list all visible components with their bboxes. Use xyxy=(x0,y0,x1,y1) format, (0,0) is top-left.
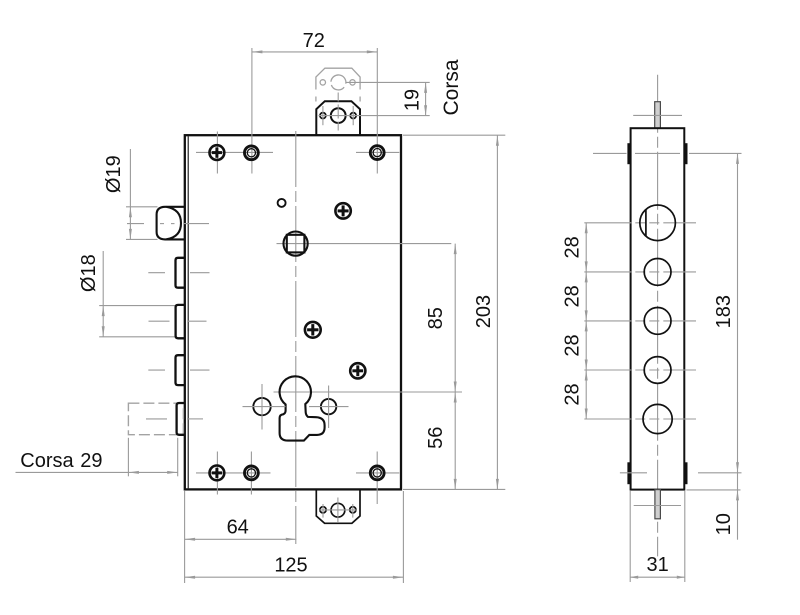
phantom bracket left small hole xyxy=(320,80,325,85)
svg-text:72: 72 xyxy=(303,30,325,52)
spindle crosshair / 85-dim extension xyxy=(277,243,452,245)
svg-text:183: 183 xyxy=(713,295,735,328)
svg-text:28: 28 xyxy=(561,236,583,258)
dimension 31 line xyxy=(630,576,685,578)
bolt stub 3 (retracted) xyxy=(176,355,185,385)
top bracket horizontal centreline / 19-dim extension xyxy=(319,115,430,117)
latch edge line in top hole xyxy=(645,209,647,236)
svg-text:29: 29 xyxy=(80,450,102,472)
top bracket centre hole xyxy=(331,108,346,123)
dimension 85/56 line xyxy=(454,244,456,490)
screw crosshairs top row xyxy=(196,151,273,153)
latch bevel curve xyxy=(167,207,182,239)
euro cylinder keyhole xyxy=(280,376,325,440)
keyhole left fixing hole xyxy=(253,398,270,415)
bolt 3 centreline xyxy=(148,369,165,371)
keyhole hole crosshairs xyxy=(243,406,286,408)
phantom bracket centre hole (broken circle) xyxy=(331,75,346,84)
dimension 10 line xyxy=(737,473,739,540)
dimension 31 extension lines xyxy=(629,491,631,582)
dimension 19 line xyxy=(425,82,427,115)
body bottom edge extension (203/56) xyxy=(403,488,505,490)
phantom bracket right small hole xyxy=(350,80,355,85)
bottom bracket right small hole xyxy=(350,507,356,513)
svg-text:56: 56 xyxy=(425,427,447,449)
dimension Corsa 29 extension lines xyxy=(127,438,129,477)
keyhole right fixing hole xyxy=(321,399,336,414)
bolt stub 1 (retracted) xyxy=(176,258,185,288)
svg-text:Ø19: Ø19 xyxy=(103,155,125,193)
small pin hole xyxy=(278,199,286,207)
bolt stub 2 xyxy=(176,305,185,338)
top bracket left small hole xyxy=(320,113,326,119)
fixing tab bottom-right xyxy=(684,462,687,484)
dimension diam 19 line xyxy=(129,149,131,239)
svg-text:85: 85 xyxy=(425,307,447,329)
ring screw top-right xyxy=(370,146,384,160)
side view bolt hole 4 xyxy=(644,357,671,384)
dimension 125 extension line right xyxy=(402,491,404,583)
dimension 64 line xyxy=(185,538,297,540)
side view bolt hole 3 xyxy=(644,308,671,335)
svg-text:10: 10 xyxy=(713,513,735,535)
ring screw top-left xyxy=(245,146,259,160)
svg-text:64: 64 xyxy=(227,517,249,539)
vertical centreline of cylinder/keyhole xyxy=(295,131,297,544)
ring screw bottom-left xyxy=(245,466,259,480)
svg-text:Corsa: Corsa xyxy=(440,59,463,115)
side view bolt hole 4 crossline xyxy=(584,369,696,371)
phillips screw mid-centre xyxy=(305,322,321,338)
svg-text:28: 28 xyxy=(561,383,583,405)
latch bolt xyxy=(157,207,185,240)
svg-text:Corsa: Corsa xyxy=(20,450,74,472)
side view bolt hole 2 crossline xyxy=(584,271,696,273)
svg-text:125: 125 xyxy=(274,555,307,577)
top pin crossline xyxy=(633,114,682,116)
svg-text:19: 19 xyxy=(402,89,424,111)
top bracket vertical centrelines xyxy=(322,106,324,125)
svg-text:Ø18: Ø18 xyxy=(78,254,100,292)
cylinder centre extension (85/56 junction) xyxy=(274,391,463,393)
dimension diam 18 line xyxy=(102,251,104,337)
phillips screw upper-centre xyxy=(335,203,350,218)
side view latch hole crossline xyxy=(584,222,696,224)
bottom strike bracket xyxy=(316,491,360,524)
dimension 64 extension line left xyxy=(184,491,186,583)
fixing tab top-left xyxy=(627,143,630,164)
side view bolt hole 3 crossline xyxy=(584,320,696,322)
faceplate inner edge line xyxy=(187,136,189,488)
svg-text:203: 203 xyxy=(473,295,495,328)
bottom bracket left small hole xyxy=(320,507,326,513)
side view bolt hole 5 crossline xyxy=(584,418,696,420)
top bracket right small hole xyxy=(350,113,356,119)
dimension diam 19 extension lines xyxy=(126,206,158,208)
dimension 72 line xyxy=(252,51,377,53)
dimension 203 line xyxy=(496,135,498,489)
body top edge extension (203) xyxy=(403,134,505,136)
bolt 2 centreline xyxy=(149,320,170,322)
deadbolt 2 extended outline / diam18 extensions xyxy=(99,305,175,307)
side view bottom pin xyxy=(655,490,661,519)
phantom position extension line (Corsa 19 top) xyxy=(346,81,430,83)
fixing tab top-right xyxy=(684,143,687,164)
dimension 125 line xyxy=(185,576,404,578)
square spindle hub xyxy=(284,232,308,256)
lock body outline xyxy=(185,135,401,489)
side view latch hole xyxy=(640,205,676,241)
dimension Corsa 29 line xyxy=(16,471,178,473)
top strike bracket (solid position) xyxy=(316,101,360,135)
screw crosshairs bottom row xyxy=(196,472,271,474)
bottom bracket centre hole xyxy=(331,503,345,517)
bolt 4 extended phantom xyxy=(128,403,183,435)
bolt stub 4 xyxy=(177,403,185,435)
side view centreline xyxy=(657,75,659,557)
side view bolt hole 5 xyxy=(643,404,672,433)
phillips screw bottom-left xyxy=(210,466,225,481)
latch centreline xyxy=(127,223,144,225)
dimension 183 line xyxy=(737,153,739,472)
svg-text:28: 28 xyxy=(561,285,583,307)
bottom tab centreline / 183 extension xyxy=(620,472,647,474)
side view top pin xyxy=(655,102,661,129)
svg-text:31: 31 xyxy=(646,554,668,576)
plate bottom extension (10) xyxy=(687,489,741,491)
side view faceplate body xyxy=(631,128,685,489)
ring screw bottom-right xyxy=(370,466,384,480)
svg-text:28: 28 xyxy=(561,334,583,356)
side view bolt hole 2 xyxy=(644,259,671,286)
top strike bracket (extended phantom position) xyxy=(316,68,360,89)
dimension 28 chain line xyxy=(585,223,587,419)
fixing tab bottom-left xyxy=(627,462,630,484)
bottom pin crossline xyxy=(634,505,681,507)
dimension 72 extension lines xyxy=(251,48,253,174)
bottom bracket crosshairs xyxy=(320,509,357,511)
bolt 1 centreline xyxy=(148,272,165,274)
bolt 4 centreline xyxy=(146,418,167,420)
phillips screw top-left xyxy=(210,145,225,160)
phillips screw lower-right xyxy=(350,363,365,378)
top tab centreline / 183 extension xyxy=(593,152,627,154)
